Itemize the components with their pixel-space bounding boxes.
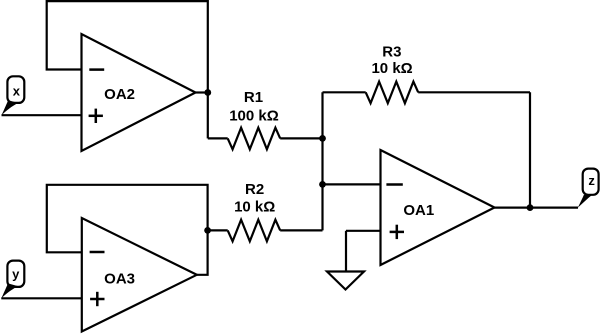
svg-text:y: y (12, 266, 20, 281)
svg-text:OA2: OA2 (104, 86, 135, 103)
svg-text:100 kΩ: 100 kΩ (229, 108, 279, 125)
svg-text:OA1: OA1 (403, 202, 434, 219)
svg-text:x: x (13, 84, 21, 99)
svg-text:R1: R1 (244, 89, 263, 106)
svg-text:R2: R2 (245, 181, 264, 198)
svg-text:OA3: OA3 (104, 271, 135, 288)
svg-text:z: z (588, 173, 595, 188)
svg-text:10 kΩ: 10 kΩ (371, 60, 412, 77)
svg-text:R3: R3 (382, 43, 401, 60)
svg-text:10 kΩ: 10 kΩ (234, 198, 275, 215)
